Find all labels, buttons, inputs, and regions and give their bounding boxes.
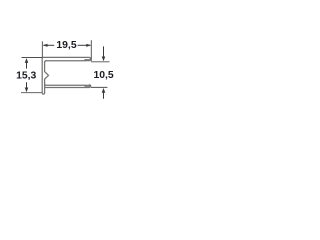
15,3 bottom extension tick	[21, 92, 42, 94]
bottom flange top line with left fillet	[45, 84, 86, 86]
15,3 top shaft + arrow (pointing up)	[26, 60, 28, 69]
19,5 left extension tick	[41, 41, 43, 57]
15,3 top extension tick	[22, 57, 43, 59]
10,5 bottom extension tick	[91, 86, 107, 88]
bottom flange tip lip (thick blob)	[85, 85, 89, 87]
15,3 bottom shaft + arrow (pointing down)	[26, 82, 28, 90]
19,5 right shaft + arrow	[78, 44, 91, 46]
10,5 top extension tick	[91, 61, 110, 63]
svg-text:19,5: 19,5	[56, 40, 76, 51]
19,5 right extension tick	[90, 40, 92, 61]
left wall outer line with rounded bottom cap	[42, 57, 44, 94]
inner corner fillet top-left	[45, 61, 47, 63]
10,5 bottom shaft + arrow (pointing up)	[103, 92, 105, 99]
top flange inner line	[46, 60, 85, 62]
bottom flange bottom line with curled tip	[45, 85, 91, 88]
left wall inner line with snap barb	[45, 62, 49, 92]
19,5 left shaft + arrow	[43, 44, 54, 46]
svg-text:10,5: 10,5	[93, 70, 113, 81]
top flange tip lip (thick blob)	[85, 59, 89, 61]
profile outline: top flange outer line with curled tip	[42, 57, 91, 94]
dimension lines and arrows (dark)	[25, 44, 106, 99]
svg-text:15,3: 15,3	[16, 71, 36, 82]
extension lines	[21, 40, 110, 92]
10,5 top shaft + arrow (pointing down)	[103, 46, 105, 57]
